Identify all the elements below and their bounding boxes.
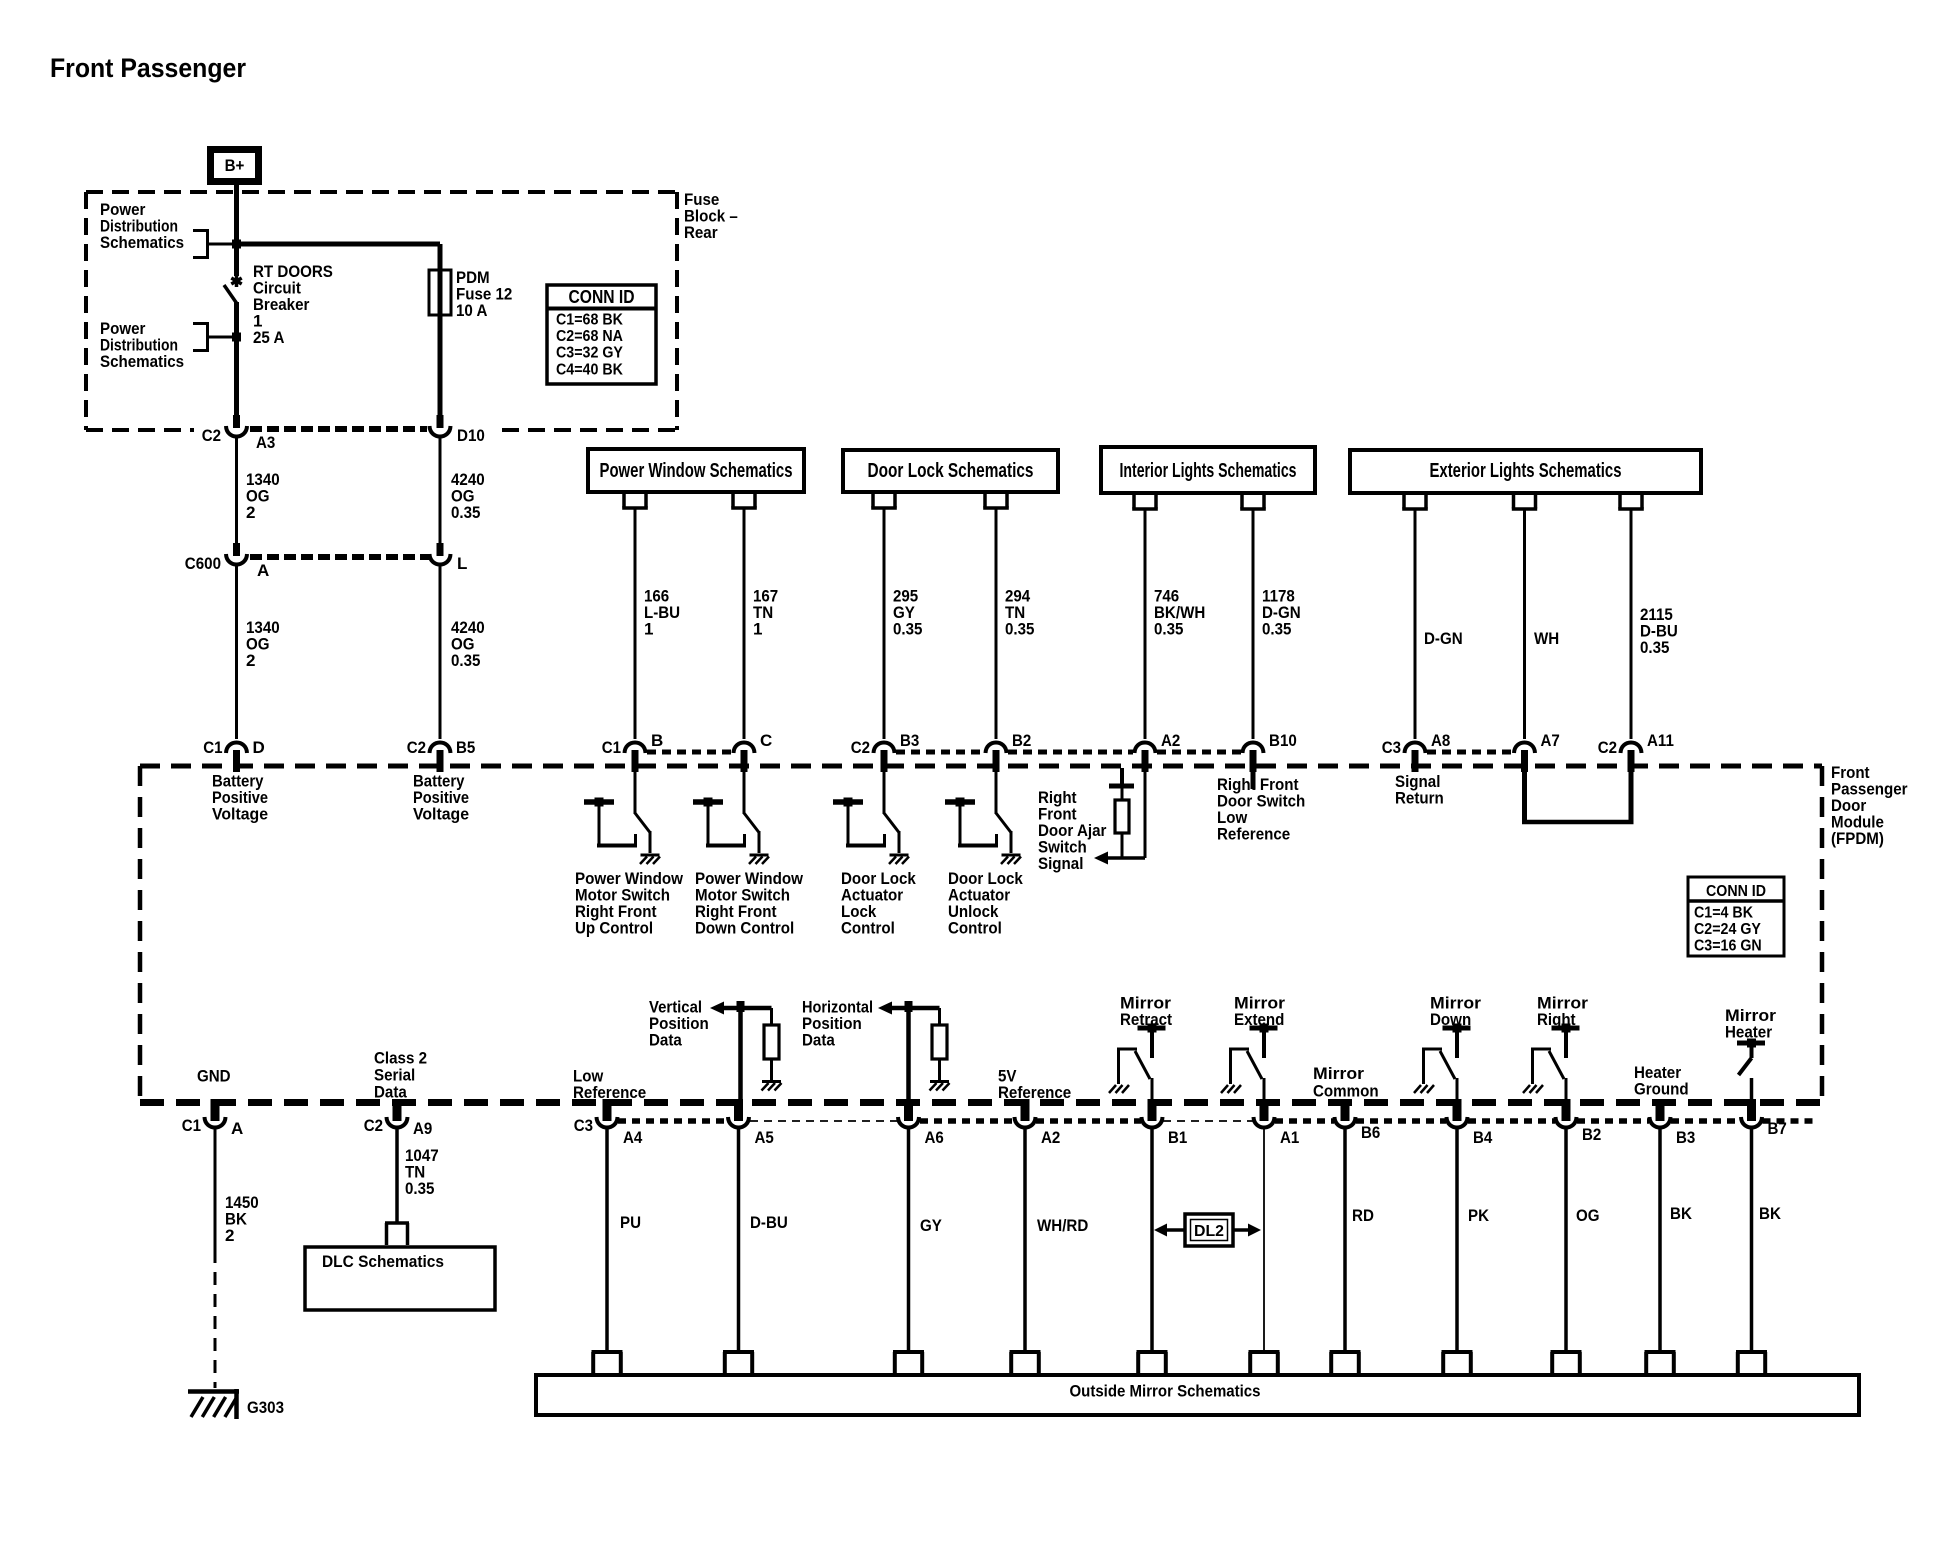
svg-text:1: 1 (753, 620, 762, 639)
svg-text:2: 2 (225, 1226, 234, 1245)
wire to outside mirror schematics x=1264 (1263, 1128, 1265, 1352)
stub bracket outside mirror x=1566 (1551, 1350, 1582, 1354)
dashed connector tie bottom row (618, 1118, 728, 1124)
svg-text:B3: B3 (1676, 1128, 1695, 1147)
dashed connector tie B3 to B2 to A2 to B10 (896, 750, 984, 755)
wire circuit 2115 D-BU 0.35 (1630, 509, 1633, 739)
svg-text:A: A (231, 1119, 243, 1138)
circuit breaker RT DOORS 1 25A (224, 275, 242, 303)
svg-text:G303: G303 (247, 1398, 284, 1417)
stub Class 2 wire (395, 1099, 400, 1118)
svg-text:(FPDM): (FPDM) (1831, 829, 1884, 848)
wire to outside mirror schematics x=607 (605, 1128, 609, 1352)
stub GND wire (213, 1099, 218, 1118)
schematic box Power Window Schematics (588, 449, 804, 492)
svg-text:A: A (257, 561, 269, 580)
svg-text:A7: A7 (1541, 731, 1560, 750)
wire circuit 1178 D-GN 0.35 (1252, 509, 1255, 739)
svg-text:Data: Data (649, 1031, 682, 1050)
wire to outside mirror schematics x=1660 (1658, 1128, 1662, 1352)
connector pin B3 (FPDM bottom row) (1656, 1099, 1665, 1121)
battery feed B+ terminal (211, 150, 259, 182)
wire to outside mirror schematics x=738.5 (737, 1128, 741, 1352)
svg-text:2: 2 (246, 503, 255, 522)
svg-text:Outside Mirror Schematics: Outside Mirror Schematics (1070, 1382, 1261, 1401)
schematic box DLC Schematics (385, 1221, 409, 1225)
wire to outside mirror schematics x=908.5 (907, 1128, 911, 1352)
svg-text:Extend: Extend (1234, 1010, 1284, 1029)
svg-text:Control: Control (948, 919, 1002, 938)
connector C600 pin A (233, 543, 240, 556)
schematic box Door Lock Schematics (843, 450, 1058, 492)
connector table CONN ID FPDM (1688, 877, 1784, 956)
svg-text:Ground: Ground (1634, 1080, 1689, 1099)
fuse block rear dashed box (86, 190, 677, 194)
svg-text:D: D (253, 738, 265, 757)
dashed connector tie C600-A to L (250, 554, 429, 560)
svg-text:25 A: 25 A (253, 328, 284, 347)
svg-text:Right: Right (1537, 1010, 1576, 1029)
svg-text:Front Passenger: Front Passenger (50, 53, 246, 83)
svg-text:B2: B2 (1582, 1125, 1601, 1144)
connector pin A2 (FPDM bottom row) (1021, 1099, 1030, 1121)
dashed connector tie B to C (647, 750, 733, 755)
svg-text:GY: GY (920, 1216, 942, 1235)
connector pin A5 (FPDM bottom row) (734, 1099, 743, 1121)
connector D10 (437, 415, 444, 428)
svg-text:C2: C2 (407, 738, 426, 757)
svg-text:A2: A2 (1041, 1128, 1060, 1147)
svg-text:0.35: 0.35 (1262, 620, 1291, 639)
svg-text:OG: OG (1576, 1206, 1600, 1225)
wire label 4240 OG 0.35 upper (439, 437, 442, 543)
svg-text:B+: B+ (225, 156, 245, 175)
wire loop A7 to A11 (1522, 772, 1527, 822)
stub bracket outside mirror x=738.5 (723, 1350, 754, 1354)
svg-text:C1=68 BK: C1=68 BK (556, 312, 623, 329)
svg-text:Signal: Signal (1038, 854, 1083, 873)
svg-text:C: C (760, 731, 772, 750)
svg-text:C2: C2 (364, 1116, 383, 1135)
connector pin A11 (FPDM top row) (1621, 743, 1642, 754)
vertical position data network with resistor (710, 1002, 724, 1015)
wire to outside mirror schematics x=1457 (1455, 1128, 1459, 1352)
wire circuit 295 GY 0.35 (883, 508, 886, 739)
svg-text:A4: A4 (623, 1128, 643, 1147)
svg-text:Mirror: Mirror (1313, 1064, 1364, 1083)
svg-text:B6: B6 (1361, 1123, 1380, 1142)
stub bracket outside mirror x=607 (592, 1350, 623, 1354)
connector table CONN ID fuse block (547, 285, 656, 384)
svg-text:2: 2 (246, 651, 255, 670)
svg-text:BK: BK (1670, 1204, 1693, 1223)
connector pin B3 (FPDM top row) (874, 743, 895, 754)
FPDM module dashed box (140, 764, 1822, 769)
fuse PDM Fuse 12 10A (438, 270, 443, 315)
wire circuit D-GN (1414, 509, 1417, 739)
schematic box Outside Mirror Schematics (536, 1375, 1859, 1415)
dashed connector tie C2-A3 to D10 (250, 426, 427, 432)
svg-text:C600: C600 (185, 554, 221, 573)
stub bracket outside mirror x=1345 (1330, 1350, 1361, 1354)
svg-text:Down Control: Down Control (695, 919, 794, 938)
pointer bracket upper (206, 229, 209, 259)
svg-text:Schematics: Schematics (100, 352, 184, 371)
svg-text:A6: A6 (925, 1128, 944, 1147)
stub bracket outside mirror x=1751.5 (1736, 1350, 1767, 1354)
horizontal position data network with resistor (878, 1002, 892, 1015)
svg-text:A9: A9 (413, 1119, 432, 1138)
ground G303 (188, 1389, 239, 1394)
svg-text:Control: Control (841, 919, 895, 938)
svg-text:Voltage: Voltage (212, 805, 268, 824)
svg-text:C1: C1 (203, 738, 222, 757)
svg-text:0.35: 0.35 (405, 1179, 434, 1198)
svg-text:Data: Data (802, 1031, 835, 1050)
svg-text:WH/RD: WH/RD (1037, 1216, 1088, 1235)
svg-text:C1: C1 (182, 1116, 201, 1135)
svg-text:C2=68 NA: C2=68 NA (556, 328, 623, 345)
connector pin B1 (FPDM bottom row) (1148, 1099, 1157, 1121)
svg-text:BK: BK (1759, 1204, 1782, 1223)
door ajar switch signal network with resistor (1144, 772, 1147, 858)
switch Door Lock Actuator Lock Control (883, 772, 886, 814)
connector pin C (FPDM top row) (734, 743, 755, 754)
wire circuit 294 TN 0.35 (995, 508, 998, 739)
connector pin B7 (FPDM bottom row) (1747, 1099, 1756, 1121)
svg-text:0.35: 0.35 (893, 620, 922, 639)
svg-text:A5: A5 (755, 1128, 774, 1147)
svg-text:A11: A11 (1647, 731, 1674, 750)
svg-text:CONN ID: CONN ID (569, 287, 635, 307)
connector pin A2 (FPDM top row) (1135, 743, 1156, 754)
svg-text:RD: RD (1352, 1206, 1374, 1225)
connector pin D (FPDM top row) (226, 743, 247, 754)
svg-text:PK: PK (1468, 1206, 1490, 1225)
svg-text:Heater: Heater (1725, 1023, 1772, 1042)
wire circuit 1047 TN 0.35 to DLC (395, 1128, 399, 1224)
svg-text:C2: C2 (1598, 738, 1617, 757)
svg-text:Reference: Reference (998, 1083, 1071, 1102)
svg-text:A8: A8 (1431, 731, 1450, 750)
junction dot node B+ trunk upper (232, 240, 241, 249)
svg-text:C1: C1 (602, 738, 621, 757)
schematic box Interior Lights Schematics (1101, 447, 1315, 493)
svg-text:0.35: 0.35 (1005, 620, 1034, 639)
svg-text:Power Window Schematics: Power Window Schematics (600, 460, 793, 482)
svg-text:DLC Schematics: DLC Schematics (322, 1252, 444, 1271)
svg-text:Common: Common (1313, 1082, 1379, 1101)
svg-text:C2: C2 (851, 738, 870, 757)
wire fuse to connector D10 (438, 315, 443, 415)
svg-text:B3: B3 (900, 731, 919, 750)
wire label 1340 OG 2 upper (235, 437, 238, 543)
svg-text:10 A: 10 A (456, 301, 487, 320)
svg-text:B: B (651, 731, 663, 750)
svg-text:A2: A2 (1161, 731, 1180, 750)
wire to outside mirror schematics x=1566 (1564, 1128, 1568, 1352)
wire label 1340 OG 2 lower (235, 565, 238, 739)
svg-text:WH: WH (1534, 629, 1559, 648)
connector pin A8 (FPDM top row) (1405, 743, 1426, 754)
svg-text:D10: D10 (457, 426, 485, 445)
svg-text:C3: C3 (1382, 738, 1401, 757)
svg-text:Down: Down (1430, 1010, 1471, 1029)
svg-text:0.35: 0.35 (1640, 638, 1669, 657)
svg-text:Reference: Reference (1217, 825, 1290, 844)
wire circuit 746 BK/WH 0.35 (1144, 509, 1147, 739)
svg-text:Up Control: Up Control (575, 919, 653, 938)
connector pin A1 (FPDM bottom row) (1260, 1099, 1269, 1121)
connector pin B5 (FPDM top row) (430, 743, 451, 754)
wire circuit 1450 BK 2 to ground (214, 1128, 217, 1250)
connector pin B2 (FPDM top row) (986, 743, 1007, 754)
svg-text:CONN ID: CONN ID (1706, 883, 1766, 900)
dashed connector tie A8 to A7 (1427, 750, 1513, 755)
svg-text:L: L (457, 554, 467, 573)
svg-text:B5: B5 (456, 738, 475, 757)
wire breaker to connector C2 (234, 302, 239, 415)
svg-text:D-GN: D-GN (1424, 629, 1463, 648)
svg-text:C3: C3 (574, 1116, 593, 1135)
connector pin A6 (FPDM bottom row) (904, 1099, 913, 1121)
wire to outside mirror schematics x=1025 (1023, 1128, 1027, 1352)
connector pin B4 (FPDM bottom row) (1453, 1099, 1462, 1121)
stub bracket outside mirror x=1660 (1645, 1350, 1676, 1354)
svg-text:A1: A1 (1280, 1128, 1299, 1147)
stub bracket outside mirror x=1264 (1249, 1350, 1280, 1354)
connector pin B (FPDM top row) (625, 743, 646, 754)
wire label 4240 OG 0.35 lower (439, 565, 442, 739)
wire circuit 166 L-BU 1 (634, 508, 637, 739)
switch Power Window Motor Switch Right Front Down Control (743, 772, 746, 814)
svg-text:D-BU: D-BU (750, 1213, 788, 1232)
connector pin B10 (FPDM top row) (1243, 743, 1264, 754)
svg-text:1: 1 (644, 620, 653, 639)
stub B10 low reference (1251, 772, 1256, 789)
wire branch to PDM fuse (237, 242, 441, 247)
svg-text:B2: B2 (1012, 731, 1031, 750)
svg-text:PU: PU (620, 1213, 641, 1232)
data link DL2 reference (1185, 1214, 1233, 1246)
svg-text:Schematics: Schematics (100, 233, 184, 252)
svg-text:GND: GND (197, 1067, 231, 1086)
stub bracket outside mirror x=908.5 (893, 1350, 924, 1354)
junction dot node trunk lower (232, 333, 241, 342)
svg-text:0.35: 0.35 (451, 651, 480, 670)
svg-text:Exterior Lights Schematics: Exterior Lights Schematics (1430, 460, 1622, 482)
wire to outside mirror schematics x=1152 (1150, 1128, 1154, 1352)
wire circuit 167 TN 1 (743, 508, 746, 739)
svg-text:Return: Return (1395, 789, 1444, 808)
connector pin A (FPDM bottom row) (211, 1099, 220, 1121)
switch Mirror Right (1552, 1026, 1580, 1031)
switch Mirror Extend (1250, 1026, 1278, 1031)
switch Mirror Down (1443, 1026, 1471, 1031)
connector pin L (437, 543, 444, 556)
connector pin B2 (FPDM bottom row) (1562, 1099, 1571, 1121)
svg-text:C2: C2 (202, 426, 221, 445)
svg-text:Data: Data (374, 1083, 407, 1102)
svg-text:C2=24 GY: C2=24 GY (1694, 921, 1761, 938)
switch Door Lock Actuator Unlock Control (995, 772, 998, 814)
stub bracket outside mirror x=1457 (1442, 1350, 1473, 1354)
connector pin A7 (FPDM top row) (1514, 743, 1535, 754)
switch Power Window Motor Switch Right Front Up Control (634, 772, 637, 814)
stub bracket outside mirror x=1152 (1137, 1350, 1168, 1354)
svg-text:A3: A3 (256, 433, 275, 452)
svg-text:C3=32 GY: C3=32 GY (556, 345, 623, 362)
pointer bracket lower (206, 322, 209, 352)
connector C2 pin A3 (233, 415, 240, 428)
svg-text:Rear: Rear (684, 223, 718, 242)
svg-text:C4=40 BK: C4=40 BK (556, 361, 623, 378)
svg-text:Interior Lights Schematics: Interior Lights Schematics (1120, 460, 1297, 482)
switch Mirror Heater (1737, 1041, 1765, 1046)
svg-text:B10: B10 (1269, 731, 1297, 750)
svg-text:DL2: DL2 (1194, 1223, 1224, 1240)
schematic box Exterior Lights Schematics (1350, 450, 1701, 493)
wire circuit WH (1523, 509, 1526, 739)
svg-text:C1=4 BK: C1=4 BK (1694, 905, 1753, 922)
svg-text:B1: B1 (1168, 1128, 1187, 1147)
svg-text:Retract: Retract (1120, 1010, 1172, 1029)
wire B+ trunk (234, 185, 239, 276)
stub bracket outside mirror x=1025 (1010, 1350, 1041, 1354)
svg-text:0.35: 0.35 (1154, 620, 1183, 639)
svg-text:Door Lock Schematics: Door Lock Schematics (868, 460, 1034, 482)
connector pin A9 (FPDM bottom row) (393, 1099, 402, 1121)
svg-text:B4: B4 (1473, 1128, 1493, 1147)
switch Mirror Retract (1138, 1026, 1166, 1031)
connector pin B6 (FPDM bottom row) (1341, 1099, 1350, 1121)
wire to outside mirror schematics x=1345 (1343, 1128, 1347, 1352)
svg-text:C3=16 GN: C3=16 GN (1694, 938, 1762, 955)
svg-text:Voltage: Voltage (413, 805, 469, 824)
connector pin A4 (FPDM bottom row) (603, 1099, 612, 1121)
wire to outside mirror schematics x=1751.5 (1750, 1128, 1754, 1352)
svg-text:0.35: 0.35 (451, 503, 480, 522)
